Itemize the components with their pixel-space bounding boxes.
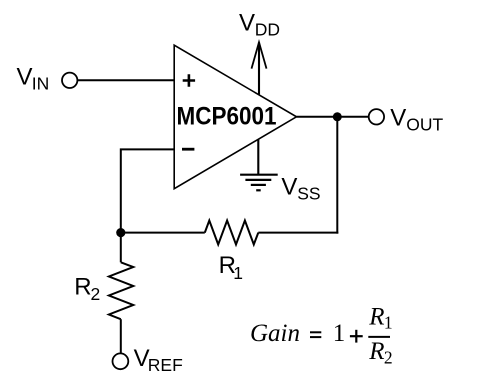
- svg-text:DD: DD: [255, 20, 280, 40]
- svg-text:V: V: [239, 10, 255, 37]
- wire node A to R2: [120, 233, 122, 263]
- label VSS: [281, 174, 320, 204]
- terminal VOUT: [369, 109, 384, 124]
- wire output: [297, 116, 369, 118]
- wire R1 right lead: [258, 232, 338, 234]
- ground (VSS): [240, 175, 278, 191]
- svg-text:R: R: [368, 338, 384, 365]
- label VREF: [134, 345, 183, 375]
- wire R2 to VREF: [120, 319, 122, 353]
- label R1: [219, 252, 243, 283]
- label VIN: [17, 64, 50, 94]
- label VOUT: [390, 104, 443, 134]
- label R2: [74, 273, 100, 304]
- svg-text:MCP6001: MCP6001: [177, 103, 277, 131]
- wire VSS pin to ground: [257, 139, 259, 174]
- op-amp pin - (inverting input): [182, 148, 194, 151]
- svg-text:1: 1: [384, 313, 393, 333]
- wire feedback vertical from output: [336, 117, 338, 234]
- svg-text:2: 2: [91, 284, 101, 304]
- svg-text:V: V: [281, 174, 297, 201]
- power VDD arrow: [252, 42, 267, 94]
- svg-text:IN: IN: [32, 74, 50, 94]
- terminal VIN: [62, 73, 77, 88]
- svg-text:SS: SS: [297, 184, 320, 204]
- op-amp U1: [174, 45, 296, 189]
- wire node A to inverting input: [121, 149, 174, 232]
- junction output node: [333, 112, 342, 121]
- terminal VREF: [113, 353, 129, 369]
- svg-text:V: V: [390, 104, 406, 131]
- resistor R2: [109, 262, 133, 319]
- svg-text:R: R: [368, 303, 384, 330]
- svg-text:R: R: [74, 273, 91, 300]
- label VDD: [239, 10, 280, 40]
- svg-text:V: V: [17, 64, 33, 91]
- op-amp pin + (non-inverting input): [183, 74, 195, 86]
- resistor R1: [205, 221, 258, 245]
- wire VIN to non-inverting input: [77, 79, 174, 81]
- svg-text:1: 1: [233, 263, 243, 283]
- formula Gain = 1 + R1/R2: [250, 303, 393, 367]
- wire R1 left lead to node A: [121, 232, 205, 234]
- svg-text:OUT: OUT: [406, 114, 443, 134]
- junction node A (inverting input node): [116, 228, 125, 237]
- svg-text:1: 1: [333, 320, 346, 347]
- svg-text:2: 2: [384, 347, 393, 367]
- svg-text:Gain: Gain: [250, 320, 300, 347]
- svg-text:REF: REF: [148, 355, 183, 375]
